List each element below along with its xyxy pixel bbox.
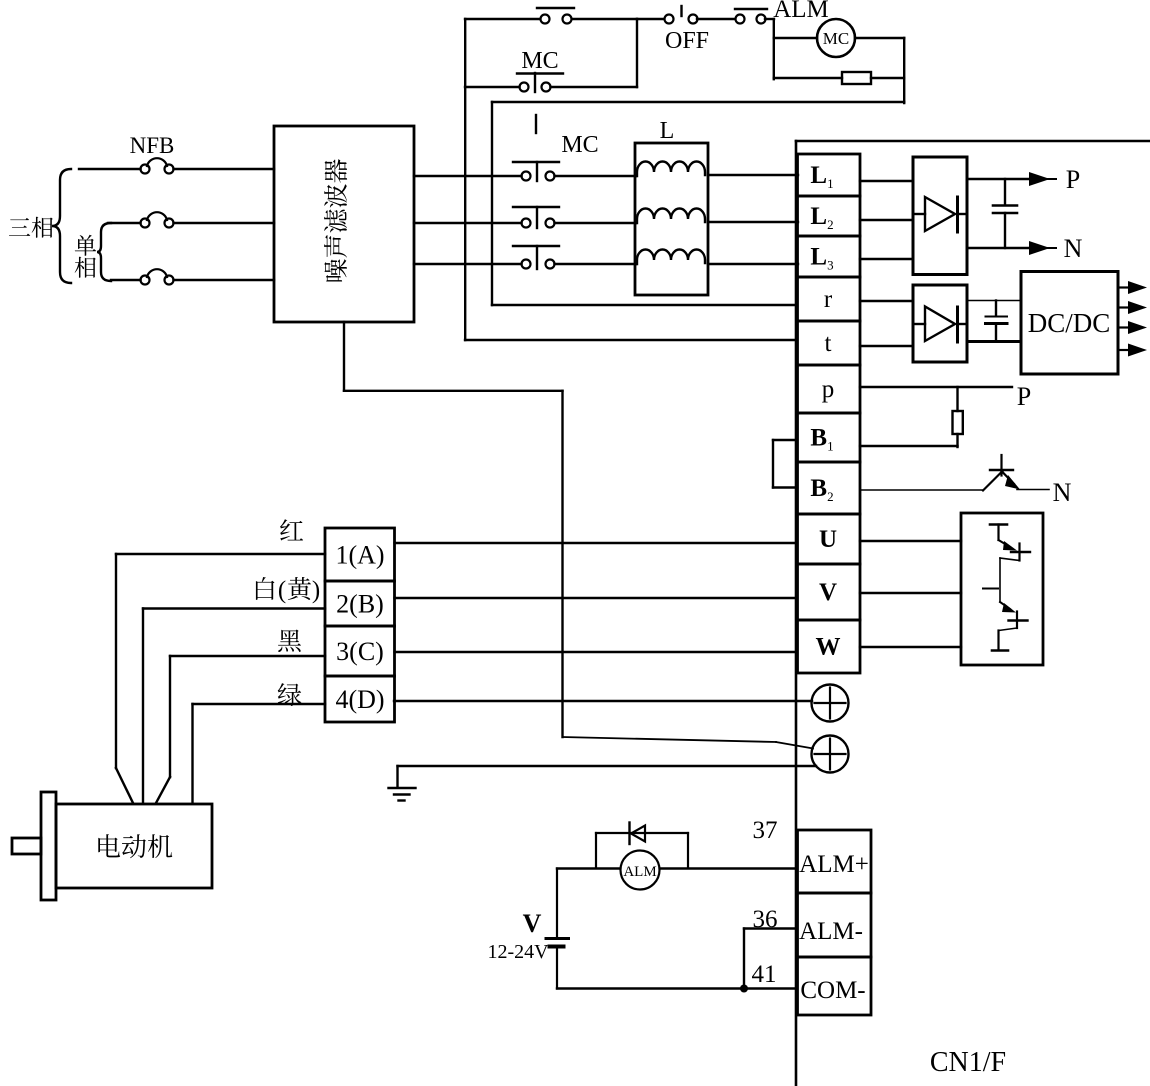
resistor surge suppressor: [774, 72, 904, 84]
wire t to rectifier: [860, 345, 913, 347]
wire r feed: [492, 102, 797, 305]
coil L phase 1: [637, 162, 705, 177]
label motor: [98, 834, 172, 858]
label 12-24V: [487, 941, 549, 963]
svg-text:N: N: [1064, 234, 1083, 263]
svg-text:): ): [312, 577, 320, 604]
svg-text:ALM-: ALM-: [799, 918, 863, 945]
terminal V: [798, 564, 861, 620]
svg-text:ALM: ALM: [623, 864, 656, 880]
wire L2 out: [708, 221, 798, 223]
svg-text:1(A): 1(A): [335, 541, 384, 570]
wire p to P: [860, 386, 1012, 388]
arrow P: [1029, 172, 1056, 186]
label MC (main): [561, 132, 598, 158]
svg-text:DC/DC: DC/DC: [1028, 308, 1111, 338]
battery V: [546, 869, 569, 989]
wire L1 out: [708, 174, 798, 176]
label ALM: [773, 0, 829, 23]
wire W to module: [860, 646, 961, 648]
wire V to 2B: [395, 597, 798, 599]
label N: [1064, 234, 1083, 263]
wire control dc-: [967, 340, 1021, 343]
label V: [523, 909, 542, 938]
svg-text:p: p: [822, 376, 835, 403]
diode flyback branch: [596, 833, 688, 868]
motor body: [56, 804, 212, 888]
wire ALM- link: [744, 929, 797, 989]
brace three-phase: [52, 169, 71, 283]
arrow dcdc out 1: [1118, 281, 1147, 294]
contact MC pole 2: [414, 207, 636, 228]
svg-text:4(D): 4(D): [335, 685, 384, 714]
svg-text:37: 37: [753, 817, 778, 844]
contact MC pole 1: [414, 162, 636, 181]
terminal 3(C): [325, 626, 395, 676]
wire motor red: [116, 554, 325, 803]
capacitor control: [986, 301, 1008, 342]
wire: [636, 19, 638, 87]
contact MC auxiliary NO (self-hold): [465, 48, 637, 92]
label DC/DC: [1028, 308, 1111, 338]
wire L3 to rectifier: [860, 258, 913, 260]
label L: [660, 118, 675, 144]
wire L1 to rectifier: [860, 180, 913, 182]
wire P bus: [967, 178, 1031, 181]
pushbutton OFF: [665, 6, 736, 24]
IGBT module box: [961, 513, 1043, 665]
breaker NFB pole 3: [111, 269, 274, 284]
label CN1/F: [930, 1047, 1006, 1078]
svg-text:U: U: [819, 526, 837, 553]
terminal L3: [798, 236, 861, 277]
wire filter ground: [344, 322, 563, 737]
label noise-filter (rotated): [324, 159, 347, 281]
label P: [1066, 165, 1080, 194]
wire V to module: [860, 592, 961, 594]
wire: [855, 38, 904, 103]
wire L2 to rectifier: [860, 219, 913, 221]
DC/DC converter box: [1021, 272, 1118, 375]
label NFB: [130, 133, 175, 158]
wire t feed: [465, 339, 797, 341]
breaker NFB pole 2: [108, 212, 274, 227]
ground symbol: [389, 766, 416, 801]
terminal L2: [798, 196, 861, 236]
label red: [280, 519, 303, 540]
rectifier control box: [913, 285, 967, 362]
wire L3 out: [708, 263, 798, 265]
noise filter box: [274, 126, 414, 322]
label 41: [752, 961, 777, 988]
terminal 2(B): [325, 581, 395, 626]
coil L phase 2: [637, 209, 705, 224]
svg-text:P: P: [1066, 165, 1080, 194]
label P (regen): [1017, 382, 1031, 411]
svg-text:L: L: [660, 118, 675, 144]
terminal 4(D): [325, 676, 395, 722]
wire U to 1A: [395, 542, 798, 544]
label three-phase: [9, 217, 53, 238]
link MC mechanical: [535, 115, 537, 133]
contact ALM NC: [735, 9, 774, 24]
terminal U: [798, 514, 861, 564]
link B1-B2 external: [773, 440, 797, 488]
wire control bottom rail: [492, 101, 904, 103]
terminal earth 1: [812, 685, 849, 722]
svg-text:MC: MC: [823, 29, 849, 48]
svg-text:OFF: OFF: [665, 28, 709, 54]
arrow dcdc out 3: [1118, 321, 1147, 334]
terminal ALM-: [798, 893, 872, 957]
wire control top rail: [465, 18, 540, 20]
svg-text:V: V: [523, 909, 542, 938]
capacitor main: [993, 179, 1017, 248]
resistor regen: [953, 387, 963, 447]
svg-text:W: W: [816, 634, 841, 661]
svg-text:V: V: [819, 579, 837, 606]
terminal p: [798, 365, 861, 413]
label OFF: [665, 28, 709, 54]
diode control: [913, 307, 967, 343]
wire 4D to earth: [394, 700, 812, 702]
relay ALM: [621, 851, 660, 890]
svg-text:41: 41: [752, 961, 777, 988]
transistor IGBT upper: [990, 525, 1030, 603]
coil MC: [817, 19, 855, 57]
terminal L1: [798, 154, 861, 196]
arrow dcdc out 2: [1118, 301, 1147, 314]
svg-text:(: (: [278, 577, 286, 604]
label N (brake): [1053, 478, 1072, 507]
svg-text:r: r: [824, 286, 833, 313]
svg-text:12-24V: 12-24V: [487, 941, 549, 963]
rectifier main box: [913, 157, 967, 275]
wire B1: [860, 445, 958, 447]
wire control dc+: [967, 300, 1021, 302]
junction dot: [740, 985, 748, 993]
terminal COM-: [798, 957, 872, 1015]
terminal t: [798, 321, 861, 365]
label green: [278, 683, 302, 706]
terminal B1: [798, 413, 861, 462]
diode flyback: [630, 823, 646, 845]
diode main: [913, 197, 967, 232]
wire drive top edge: [796, 140, 1150, 143]
svg-text:NFB: NFB: [130, 133, 175, 158]
svg-text:P: P: [1017, 382, 1031, 411]
label black: [278, 630, 301, 652]
wire drive left rail: [795, 141, 798, 1086]
svg-text:N: N: [1053, 478, 1072, 507]
wire r to rectifier: [860, 300, 913, 302]
label 37: [753, 817, 778, 844]
terminal W: [798, 620, 861, 673]
wire MC coil branch: [774, 19, 817, 79]
coil L phase 3: [637, 250, 705, 264]
contact MC auxiliary NC (top): [537, 8, 637, 24]
wire ALM+ row: [557, 867, 797, 869]
arrow N: [1029, 241, 1056, 255]
svg-text:MC: MC: [561, 132, 598, 158]
svg-text:ALM: ALM: [773, 0, 829, 23]
wire motor white: [143, 609, 325, 804]
terminal 1(A): [325, 528, 395, 581]
wire gnd: [398, 765, 817, 767]
wire N bus: [967, 247, 1031, 250]
wire: [637, 18, 664, 20]
svg-text:t: t: [825, 330, 832, 357]
wire U to module: [860, 540, 961, 542]
svg-text:ALM+: ALM+: [799, 851, 869, 878]
label single-phase: [75, 235, 97, 278]
wire filter-gnd diagonal: [563, 737, 814, 749]
contact MC pole 3: [414, 246, 636, 269]
terminal B2: [798, 462, 861, 514]
wire COM- row: [557, 987, 797, 989]
arrow dcdc out 4: [1118, 344, 1147, 357]
wire motor black: [156, 656, 325, 803]
wire motor green: [193, 704, 326, 803]
brace single-phase: [97, 223, 111, 281]
gate lead middle: [983, 588, 998, 590]
motor flange: [41, 792, 56, 900]
reactor box: [635, 143, 708, 295]
svg-text:3(C): 3(C): [336, 637, 384, 666]
terminal earth 2: [812, 736, 849, 773]
wire W to 3C: [395, 651, 798, 653]
svg-text:MC: MC: [521, 48, 558, 74]
wire control left rail: [464, 19, 466, 340]
label white(yellow): [256, 577, 320, 604]
wire B2: [860, 489, 983, 491]
transistor IGBT lower: [992, 602, 1028, 651]
svg-text:2(B): 2(B): [336, 590, 384, 619]
label 36: [753, 906, 778, 933]
breaker NFB pole 1: [79, 158, 274, 173]
terminal ALM+: [798, 830, 872, 893]
svg-text:CN1/F: CN1/F: [930, 1047, 1006, 1078]
terminal r: [798, 277, 861, 321]
transistor brake: [983, 455, 1049, 491]
motor shaft: [12, 838, 41, 854]
svg-text:COM-: COM-: [800, 977, 865, 1004]
